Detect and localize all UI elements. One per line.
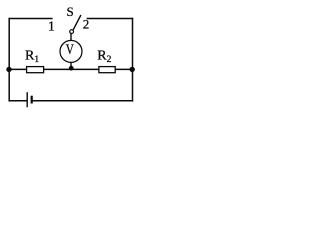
wire: left side bbox=[8, 18, 10, 102]
node: left junction bbox=[6, 67, 11, 72]
switch S lever bbox=[73, 15, 81, 30]
wire: top-left segment (to switch terminal 1) bbox=[9, 18, 53, 20]
resistor R1 bbox=[27, 67, 44, 73]
wire: bottom-right segment (from battery) bbox=[32, 100, 134, 102]
wire: middle horizontal (through R1 and R2) bbox=[9, 68, 132, 70]
voltmeter V bbox=[60, 40, 82, 62]
wire: voltmeter to middle wire bbox=[70, 62, 72, 69]
battery B1 long plate bbox=[26, 92, 28, 107]
wire: bottom-left segment (to battery) bbox=[9, 100, 28, 102]
battery B1 short plate bbox=[31, 96, 33, 104]
node: voltmeter junction on middle wire bbox=[69, 66, 74, 71]
svg-text:S: S bbox=[66, 4, 73, 19]
wire: top-right segment (from switch terminal 2) bbox=[87, 18, 134, 20]
wire: right side bbox=[132, 18, 134, 102]
svg-text:1: 1 bbox=[48, 18, 55, 33]
node: right junction bbox=[130, 67, 135, 72]
svg-text:R1: R1 bbox=[25, 49, 39, 65]
switch S pivot bbox=[70, 30, 74, 34]
svg-text:R2: R2 bbox=[97, 49, 111, 65]
wire: switch pivot to voltmeter bbox=[70, 33, 72, 41]
resistor R2 bbox=[99, 67, 115, 73]
svg-text:V: V bbox=[66, 42, 74, 58]
